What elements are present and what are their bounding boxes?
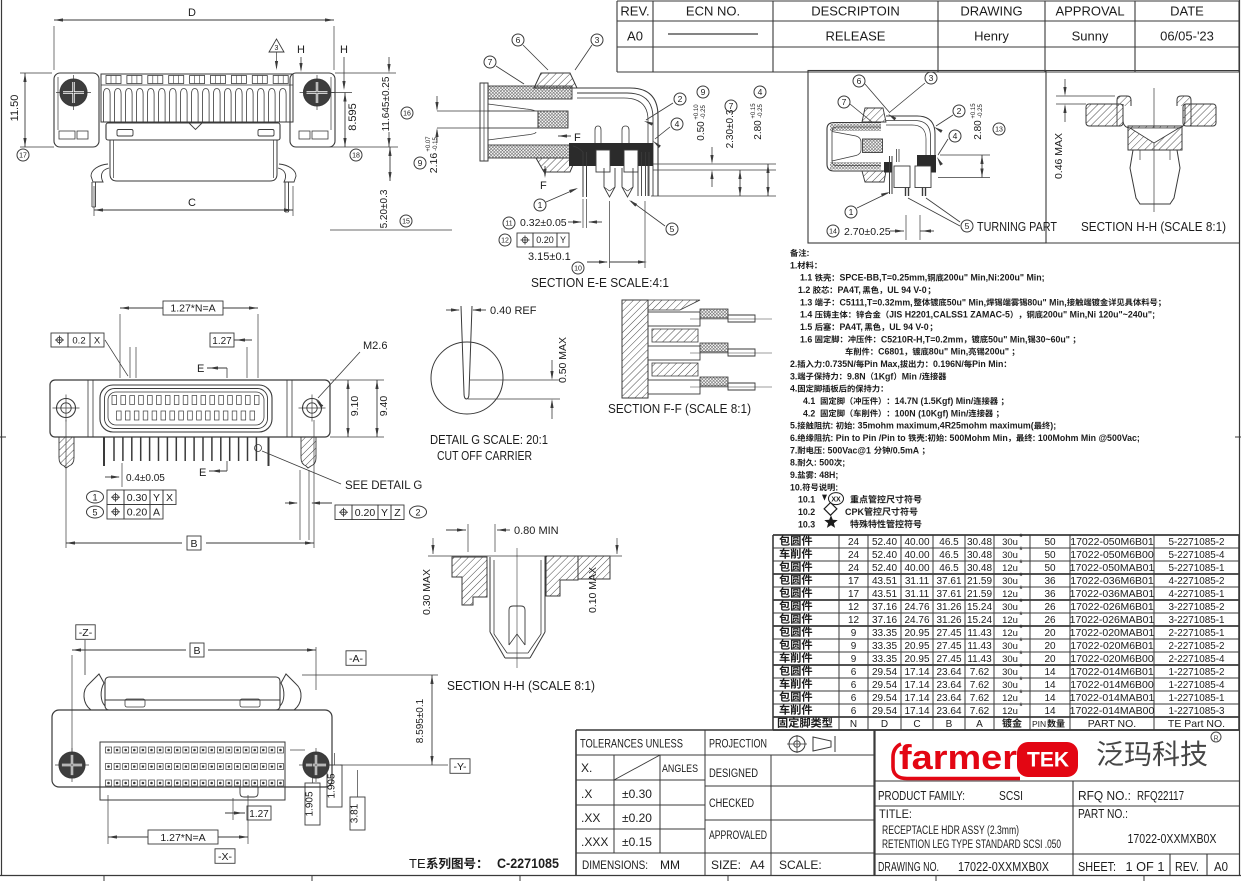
svg-text:7.: 7.: [790, 445, 797, 455]
svg-text:10.1: 10.1: [798, 495, 815, 505]
svg-text:40.00: 40.00: [904, 550, 929, 561]
svg-text:31.11: 31.11: [905, 589, 930, 600]
svg-text:2.16: 2.16: [428, 153, 440, 174]
svg-text:*: *: [1019, 584, 1023, 595]
svg-text:0.40 REF: 0.40 REF: [490, 305, 537, 317]
svg-text:*: *: [1019, 701, 1023, 712]
svg-text:06/05-'23: 06/05-'23: [1160, 29, 1214, 44]
svg-text:1: 1: [538, 200, 543, 210]
svg-text:-A-: -A-: [349, 653, 364, 665]
svg-text:+0.10: +0.10: [694, 104, 700, 120]
svg-text:9.8N: 9.8N: [847, 371, 866, 381]
svg-text:SCALE:: SCALE:: [779, 858, 822, 872]
svg-text:23.64: 23.64: [936, 693, 961, 704]
svg-text:Y: Y: [381, 507, 388, 519]
svg-text:30u: 30u: [1002, 641, 1018, 652]
svg-text:7: 7: [729, 101, 734, 111]
svg-text:37.16: 37.16: [872, 615, 897, 626]
svg-text:17022-014MAB00: 17022-014MAB00: [1070, 705, 1155, 717]
svg-text:B: B: [193, 645, 200, 657]
svg-text:-0.25: -0.25: [701, 105, 707, 119]
svg-text:D: D: [188, 7, 196, 19]
svg-text:52.40: 52.40: [872, 550, 897, 561]
svg-text:TE: TE: [409, 856, 426, 871]
svg-text:14: 14: [1044, 680, 1056, 691]
svg-text:52.40: 52.40: [872, 537, 897, 548]
svg-text:12: 12: [848, 602, 860, 613]
svg-text::: :: [807, 248, 810, 258]
svg-text:6: 6: [857, 76, 862, 86]
svg-text:5: 5: [92, 508, 97, 518]
svg-text:: 48H;: : 48H;: [814, 470, 839, 480]
svg-text:20.95: 20.95: [904, 654, 929, 665]
svg-text:-Y-: -Y-: [453, 761, 467, 773]
svg-text:DIMENSIONS:: DIMENSIONS:: [582, 858, 648, 872]
svg-text:R: R: [1213, 736, 1218, 743]
svg-text:PA4T,: PA4T,: [838, 285, 861, 295]
svg-text:+0.15: +0.15: [751, 103, 757, 119]
svg-text:-Z-: -Z-: [79, 627, 93, 639]
svg-text:100N (10Kgf) Min/: 100N (10Kgf) Min/: [895, 408, 969, 418]
svg-text:1.2: 1.2: [798, 285, 810, 295]
svg-text:12u: 12u: [1002, 693, 1018, 704]
svg-text:A: A: [976, 719, 983, 730]
svg-text:33.35: 33.35: [872, 641, 897, 652]
svg-text:30u: 30u: [1002, 576, 1018, 587]
svg-text:7.62: 7.62: [970, 706, 990, 717]
svg-text:XX: XX: [831, 497, 841, 504]
svg-text:21.59: 21.59: [967, 589, 992, 600]
svg-text:14: 14: [1044, 706, 1056, 717]
svg-text:APPROVAL: APPROVAL: [1055, 4, 1124, 19]
svg-text:0.4±0.05: 0.4±0.05: [126, 473, 165, 484]
svg-text:20.95: 20.95: [904, 628, 929, 639]
svg-text:6: 6: [516, 35, 521, 45]
svg-text:2-2271085-2: 2-2271085-2: [1169, 640, 1225, 652]
svg-text:37.61: 37.61: [936, 576, 961, 587]
svg-text:12u: 12u: [1002, 563, 1018, 574]
svg-text:20.95: 20.95: [904, 641, 929, 652]
svg-text:1Kgf: 1Kgf: [874, 371, 894, 381]
svg-text:0.20: 0.20: [355, 507, 376, 519]
svg-text:0.46 MAX: 0.46 MAX: [1053, 133, 1065, 179]
svg-text:±0.15: ±0.15: [622, 835, 652, 849]
svg-text:12: 12: [501, 237, 509, 244]
svg-text:5-2271085-2: 5-2271085-2: [1169, 536, 1225, 548]
svg-text:40.00: 40.00: [904, 563, 929, 574]
svg-text:.XXX: .XXX: [581, 835, 608, 849]
svg-text:7.62: 7.62: [970, 680, 990, 691]
svg-text:A: A: [153, 507, 160, 519]
svg-text:24: 24: [848, 550, 860, 561]
svg-text:8.: 8.: [790, 458, 797, 468]
svg-text:A0: A0: [1214, 860, 1228, 874]
svg-text:80u" Min,: 80u" Min,: [1027, 297, 1066, 307]
svg-text:3: 3: [595, 35, 600, 45]
svg-text:2.30±0.3: 2.30±0.3: [725, 109, 736, 148]
svg-text:0.20: 0.20: [127, 507, 148, 519]
svg-text:17.14: 17.14: [904, 667, 929, 678]
svg-text:24: 24: [848, 537, 860, 548]
svg-text:30u: 30u: [1002, 680, 1018, 691]
svg-text:Pin Max,: Pin Max,: [864, 359, 900, 369]
svg-text:Z: Z: [394, 507, 401, 519]
svg-text:23.64: 23.64: [936, 706, 961, 717]
svg-text:*: *: [1019, 688, 1023, 699]
svg-text:C5111,T=0.32mm,: C5111,T=0.32mm,: [840, 297, 913, 307]
svg-text:TEK: TEK: [1027, 749, 1069, 772]
svg-text:23.64: 23.64: [936, 680, 961, 691]
svg-text:30.48: 30.48: [967, 563, 992, 574]
svg-text:5-2271085-4: 5-2271085-4: [1169, 549, 1225, 561]
svg-text:B: B: [946, 719, 953, 730]
svg-text:17022-036MAB01: 17022-036MAB01: [1070, 588, 1155, 600]
svg-text:17022-014M6B01: 17022-014M6B01: [1070, 666, 1154, 678]
svg-text:M2.6: M2.6: [363, 340, 387, 352]
svg-text:2.70±0.25: 2.70±0.25: [844, 226, 891, 238]
svg-text:*: *: [1019, 649, 1023, 660]
svg-text:TE Part NO.: TE Part NO.: [1168, 718, 1225, 730]
svg-text:C6801: C6801: [878, 347, 904, 357]
svg-text:30.48: 30.48: [967, 550, 992, 561]
svg-text:1: 1: [849, 207, 854, 217]
svg-text:ECN NO.: ECN NO.: [686, 4, 740, 19]
svg-text:1.6: 1.6: [800, 334, 812, 344]
svg-text:17: 17: [848, 576, 860, 587]
svg-text:6: 6: [851, 680, 857, 691]
svg-text:6: 6: [851, 667, 857, 678]
svg-text:F: F: [540, 180, 547, 192]
svg-text:1.27: 1.27: [212, 336, 232, 347]
svg-text:11.645±0.25: 11.645±0.25: [381, 76, 392, 131]
svg-text:2-2271085-4: 2-2271085-4: [1169, 653, 1225, 665]
svg-text:DATE: DATE: [1170, 4, 1204, 19]
svg-text:*: *: [1019, 558, 1023, 569]
svg-text:17.14: 17.14: [904, 706, 929, 717]
svg-text:DRAWING NO.: DRAWING NO.: [878, 860, 939, 874]
svg-text:50: 50: [1044, 563, 1056, 574]
svg-text:24: 24: [848, 563, 860, 574]
svg-text:52.40: 52.40: [872, 563, 897, 574]
svg-text:9.40: 9.40: [378, 396, 390, 417]
svg-text:1.5: 1.5: [800, 322, 812, 332]
svg-text::: :: [925, 433, 928, 443]
svg-text:*: *: [1019, 571, 1023, 582]
svg-text:SIZE:: SIZE:: [711, 858, 741, 872]
svg-text:C5210R-H,T=0.2mm: C5210R-H,T=0.2mm: [881, 334, 964, 344]
svg-text:2: 2: [415, 508, 420, 518]
svg-text:12u: 12u: [1002, 615, 1018, 626]
svg-text:0.10 MAX: 0.10 MAX: [587, 567, 599, 613]
svg-text:D: D: [881, 719, 888, 730]
svg-text:11.50: 11.50: [9, 95, 21, 122]
svg-text:5: 5: [670, 224, 675, 234]
svg-text:C: C: [913, 719, 920, 730]
svg-text:17.14: 17.14: [904, 693, 929, 704]
svg-text:);: );: [1050, 421, 1056, 431]
svg-text:JIS H2201,CALSS1 ZAMAC-5: JIS H2201,CALSS1 ZAMAC-5: [889, 310, 1010, 320]
svg-text:RFQ22117: RFQ22117: [1137, 789, 1184, 803]
svg-text:SPCE-BB,T=0.25mm,: SPCE-BB,T=0.25mm,: [840, 273, 928, 283]
svg-text:-0.25: -0.25: [978, 104, 984, 118]
svg-text:*: *: [1019, 610, 1023, 621]
svg-text:5.20±0.3: 5.20±0.3: [379, 189, 390, 228]
svg-text::: :: [830, 421, 833, 431]
svg-text:20: 20: [1044, 641, 1056, 652]
svg-text:PIN: PIN: [1032, 719, 1046, 729]
svg-text:12u: 12u: [1002, 706, 1018, 717]
svg-text:12: 12: [848, 615, 860, 626]
svg-text:3: 3: [275, 45, 279, 52]
svg-text:17: 17: [19, 152, 27, 159]
svg-text:11.43: 11.43: [967, 628, 992, 639]
svg-text:23.64: 23.64: [936, 667, 961, 678]
svg-text:2.: 2.: [790, 359, 797, 369]
svg-text:C: C: [188, 197, 196, 209]
svg-text:1 OF 1: 1 OF 1: [1126, 860, 1165, 874]
svg-text:33.35: 33.35: [872, 628, 897, 639]
svg-text:;: ;: [842, 458, 845, 468]
svg-text:farmer: farmer: [899, 739, 1017, 777]
svg-text:*: *: [1019, 662, 1023, 673]
svg-text:E: E: [199, 467, 206, 479]
svg-text:17022-026M6B01: 17022-026M6B01: [1070, 601, 1154, 613]
svg-text:1.905: 1.905: [327, 773, 338, 798]
svg-text:12u: 12u: [1002, 628, 1018, 639]
svg-text:4.2: 4.2: [803, 408, 815, 418]
svg-text:1.1: 1.1: [800, 273, 812, 283]
svg-text:4: 4: [758, 87, 763, 97]
svg-text:SCSI: SCSI: [999, 789, 1023, 803]
svg-text:1.27: 1.27: [249, 809, 269, 820]
svg-text:30u: 30u: [1002, 654, 1018, 665]
svg-text:CUT OFF CARRIER: CUT OFF CARRIER: [437, 449, 532, 463]
svg-text:1-2271085-1: 1-2271085-1: [1169, 692, 1225, 704]
svg-text:5.: 5.: [790, 421, 797, 431]
svg-text:+0.07: +0.07: [426, 136, 432, 152]
svg-text:E: E: [197, 363, 204, 375]
svg-text:0.32±0.05: 0.32±0.05: [520, 217, 567, 229]
svg-text:10: 10: [574, 265, 582, 272]
svg-text:29.54: 29.54: [872, 680, 897, 691]
svg-text:80u" Min,: 80u" Min,: [929, 347, 968, 357]
svg-text:27.45: 27.45: [936, 628, 961, 639]
svg-text:Y: Y: [560, 235, 566, 245]
svg-text:1.: 1.: [790, 260, 797, 270]
svg-text:DRAWING: DRAWING: [960, 4, 1022, 19]
svg-text:2.80: 2.80: [753, 120, 764, 140]
svg-text:17022-014MAB01: 17022-014MAB01: [1070, 692, 1155, 704]
svg-text:9: 9: [851, 654, 857, 665]
svg-text:14: 14: [1044, 667, 1056, 678]
svg-text:3-2271085-2: 3-2271085-2: [1169, 601, 1225, 613]
svg-text:X: X: [94, 335, 101, 346]
svg-text:33.35: 33.35: [872, 654, 897, 665]
svg-text:40.00: 40.00: [904, 537, 929, 548]
svg-text:DESIGNED: DESIGNED: [709, 768, 758, 780]
svg-text:RETENTION LEG TYPE STANDARD: RETENTION LEG TYPE STANDARD SCSI .050: [882, 839, 1061, 851]
svg-text:Min /: Min /: [902, 371, 923, 381]
svg-text:/0.5mA: /0.5mA: [890, 445, 919, 455]
svg-text:TITLE:: TITLE:: [879, 807, 912, 821]
svg-text:*: *: [1019, 636, 1023, 647]
svg-text:27.45: 27.45: [936, 641, 961, 652]
svg-text:50: 50: [1044, 550, 1056, 561]
svg-text:29.54: 29.54: [872, 667, 897, 678]
svg-text:PA4T,: PA4T,: [840, 322, 863, 332]
svg-text:36: 36: [1044, 576, 1056, 587]
svg-text:30.48: 30.48: [967, 537, 992, 548]
svg-text:0.196N/: 0.196N/: [933, 359, 964, 369]
svg-text:MM: MM: [660, 858, 680, 872]
svg-text:7: 7: [842, 97, 847, 107]
svg-text:: Pin to Pin /Pin to: : Pin to Pin /Pin to: [830, 433, 906, 443]
svg-text:9: 9: [851, 628, 857, 639]
svg-text:17022-014M6B00: 17022-014M6B00: [1070, 679, 1154, 691]
svg-text:9.: 9.: [790, 470, 797, 480]
svg-text:±0.20: ±0.20: [622, 811, 652, 825]
svg-text:B: B: [190, 538, 197, 550]
svg-text:17022-050MAB01: 17022-050MAB01: [1070, 562, 1155, 574]
svg-text:26: 26: [1044, 602, 1056, 613]
svg-text:200u" Min,Ni:200u" Min;: 200u" Min,Ni:200u" Min;: [944, 273, 1045, 283]
svg-text:CHECKED: CHECKED: [709, 798, 754, 810]
svg-text:30u: 30u: [1002, 602, 1018, 613]
svg-text:APPROVALED: APPROVALED: [709, 830, 767, 842]
svg-text:3.81: 3.81: [350, 803, 361, 823]
svg-text:12u: 12u: [1002, 589, 1018, 600]
svg-text:1.905: 1.905: [305, 791, 316, 816]
svg-text:15: 15: [402, 218, 410, 225]
svg-text:0.50 MAX: 0.50 MAX: [557, 337, 569, 383]
svg-text:200u" Min,Ni 120u"~240u";: 200u" Min,Ni 120u"~240u";: [1043, 310, 1155, 320]
svg-text:: 500Vac@1: : 500Vac@1: [822, 445, 871, 455]
svg-text:24.76: 24.76: [904, 602, 929, 613]
svg-text:1.4: 1.4: [800, 310, 812, 320]
svg-text:43.51: 43.51: [872, 589, 897, 600]
svg-text:*: *: [1019, 597, 1023, 608]
svg-text:21.59: 21.59: [967, 576, 992, 587]
svg-text:17022-050M6B00: 17022-050M6B00: [1070, 549, 1154, 561]
svg-text:14: 14: [829, 228, 837, 235]
svg-text:+0.15: +0.15: [971, 103, 977, 119]
svg-text:17022-020MAB01: 17022-020MAB01: [1070, 627, 1155, 639]
svg-text:10.3: 10.3: [798, 519, 815, 529]
svg-text:2: 2: [678, 94, 683, 104]
svg-text:0.50: 0.50: [696, 121, 707, 141]
svg-text:PRODUCT FAMILY:: PRODUCT FAMILY:: [878, 789, 965, 803]
svg-text:5: 5: [965, 221, 970, 231]
svg-text:*: *: [1019, 545, 1023, 556]
svg-text:N: N: [850, 719, 857, 730]
svg-text:: 35mohm maximum,4R25mohm maxi: : 35mohm maximum,4R25mohm maximum(: [852, 421, 1033, 431]
svg-text:4-2271085-2: 4-2271085-2: [1169, 575, 1225, 587]
svg-text:: 100Mohm Min @500Vac;: : 100Mohm Min @500Vac;: [1033, 433, 1140, 443]
svg-text:: 500: : 500: [814, 458, 834, 468]
svg-text:24.76: 24.76: [904, 615, 929, 626]
svg-text:CPK: CPK: [845, 507, 865, 517]
svg-text:4-2271085-1: 4-2271085-1: [1169, 588, 1225, 600]
svg-text:9: 9: [701, 87, 706, 97]
svg-text:1.27*N=A: 1.27*N=A: [170, 303, 215, 315]
svg-text:30u: 30u: [1002, 550, 1018, 561]
svg-text:0.20: 0.20: [536, 235, 554, 245]
svg-text:15.24: 15.24: [967, 602, 992, 613]
svg-text:11.43: 11.43: [967, 654, 992, 665]
svg-text:3.15±0.1: 3.15±0.1: [528, 251, 571, 263]
svg-text:27.45: 27.45: [936, 654, 961, 665]
svg-text:30~60u": 30~60u": [1036, 334, 1070, 344]
svg-text:5-2271085-1: 5-2271085-1: [1169, 562, 1225, 574]
svg-text::0.735N/: :0.735N/: [822, 359, 856, 369]
svg-text:3-2271085-1: 3-2271085-1: [1169, 614, 1225, 626]
svg-text:A0: A0: [627, 29, 643, 44]
svg-text:4.: 4.: [790, 384, 797, 394]
svg-text:SECTION F-F (SCALE 8:1): SECTION F-F (SCALE 8:1): [608, 402, 751, 416]
svg-text:31.11: 31.11: [905, 576, 930, 587]
svg-text:200u": 200u": [985, 347, 1009, 357]
svg-text:10.: 10.: [790, 482, 802, 492]
svg-text:RECEPTACLE HDR ASSY (2.3mm): RECEPTACLE HDR ASSY (2.3mm): [882, 825, 1019, 837]
svg-text:.X: .X: [581, 787, 592, 801]
svg-text:7.62: 7.62: [970, 667, 990, 678]
svg-text:9: 9: [851, 641, 857, 652]
svg-text:SECTION H-H (SCALE 8:1): SECTION H-H (SCALE 8:1): [1081, 220, 1226, 234]
svg-text:1-2271085-3: 1-2271085-3: [1169, 705, 1225, 717]
svg-text:4: 4: [953, 131, 958, 141]
svg-text:14.7N (1.5Kgf) Min/: 14.7N (1.5Kgf) Min/: [895, 396, 974, 406]
svg-text:0.30: 0.30: [127, 492, 148, 504]
svg-text:TOLERANCES UNLESS: TOLERANCES UNLESS: [580, 737, 683, 751]
svg-text:7: 7: [488, 57, 493, 67]
svg-text:4: 4: [675, 119, 680, 129]
svg-text:1-2271085-4: 1-2271085-4: [1169, 679, 1225, 691]
svg-text:X: X: [166, 492, 173, 504]
svg-text:UL 94 V-0: UL 94 V-0: [889, 322, 929, 332]
svg-text:26: 26: [1044, 615, 1056, 626]
svg-text:46.5: 46.5: [939, 550, 959, 561]
svg-text:17022-036M6B01: 17022-036M6B01: [1070, 575, 1154, 587]
svg-text:15.24: 15.24: [967, 615, 992, 626]
svg-text:16: 16: [403, 111, 411, 118]
svg-text:Henry: Henry: [974, 29, 1009, 44]
svg-text:DETAIL G SCALE: 20:1: DETAIL G SCALE: 20:1: [430, 433, 548, 447]
svg-text:2: 2: [957, 106, 962, 116]
svg-text:4.1: 4.1: [803, 396, 815, 406]
svg-text:17022-050M6B01: 17022-050M6B01: [1070, 536, 1154, 548]
svg-text:SHEET:: SHEET:: [1078, 860, 1116, 874]
svg-text:11.43: 11.43: [967, 641, 992, 652]
svg-text:17022-020M6B00: 17022-020M6B00: [1070, 653, 1154, 665]
svg-text:DESCRIPTOIN: DESCRIPTOIN: [811, 4, 900, 19]
svg-text:17: 17: [848, 589, 860, 600]
svg-text:0.80 MIN: 0.80 MIN: [514, 525, 559, 537]
svg-text:RELEASE: RELEASE: [826, 29, 886, 44]
svg-text:0.30 MAX: 0.30 MAX: [421, 569, 433, 615]
svg-text:SEE DETAIL G: SEE DETAIL G: [345, 480, 422, 492]
svg-text:17022-026MAB01: 17022-026MAB01: [1070, 614, 1155, 626]
svg-text:43.51: 43.51: [872, 576, 897, 587]
svg-text:30u: 30u: [1002, 537, 1018, 548]
svg-text:29.54: 29.54: [872, 706, 897, 717]
svg-text:20: 20: [1044, 628, 1056, 639]
svg-text:PART NO.: PART NO.: [1088, 718, 1136, 730]
svg-text:29.54: 29.54: [872, 693, 897, 704]
svg-text:20: 20: [1044, 654, 1056, 665]
svg-text:11: 11: [505, 220, 512, 227]
svg-text:3.: 3.: [790, 371, 797, 381]
svg-text:6.: 6.: [790, 433, 797, 443]
